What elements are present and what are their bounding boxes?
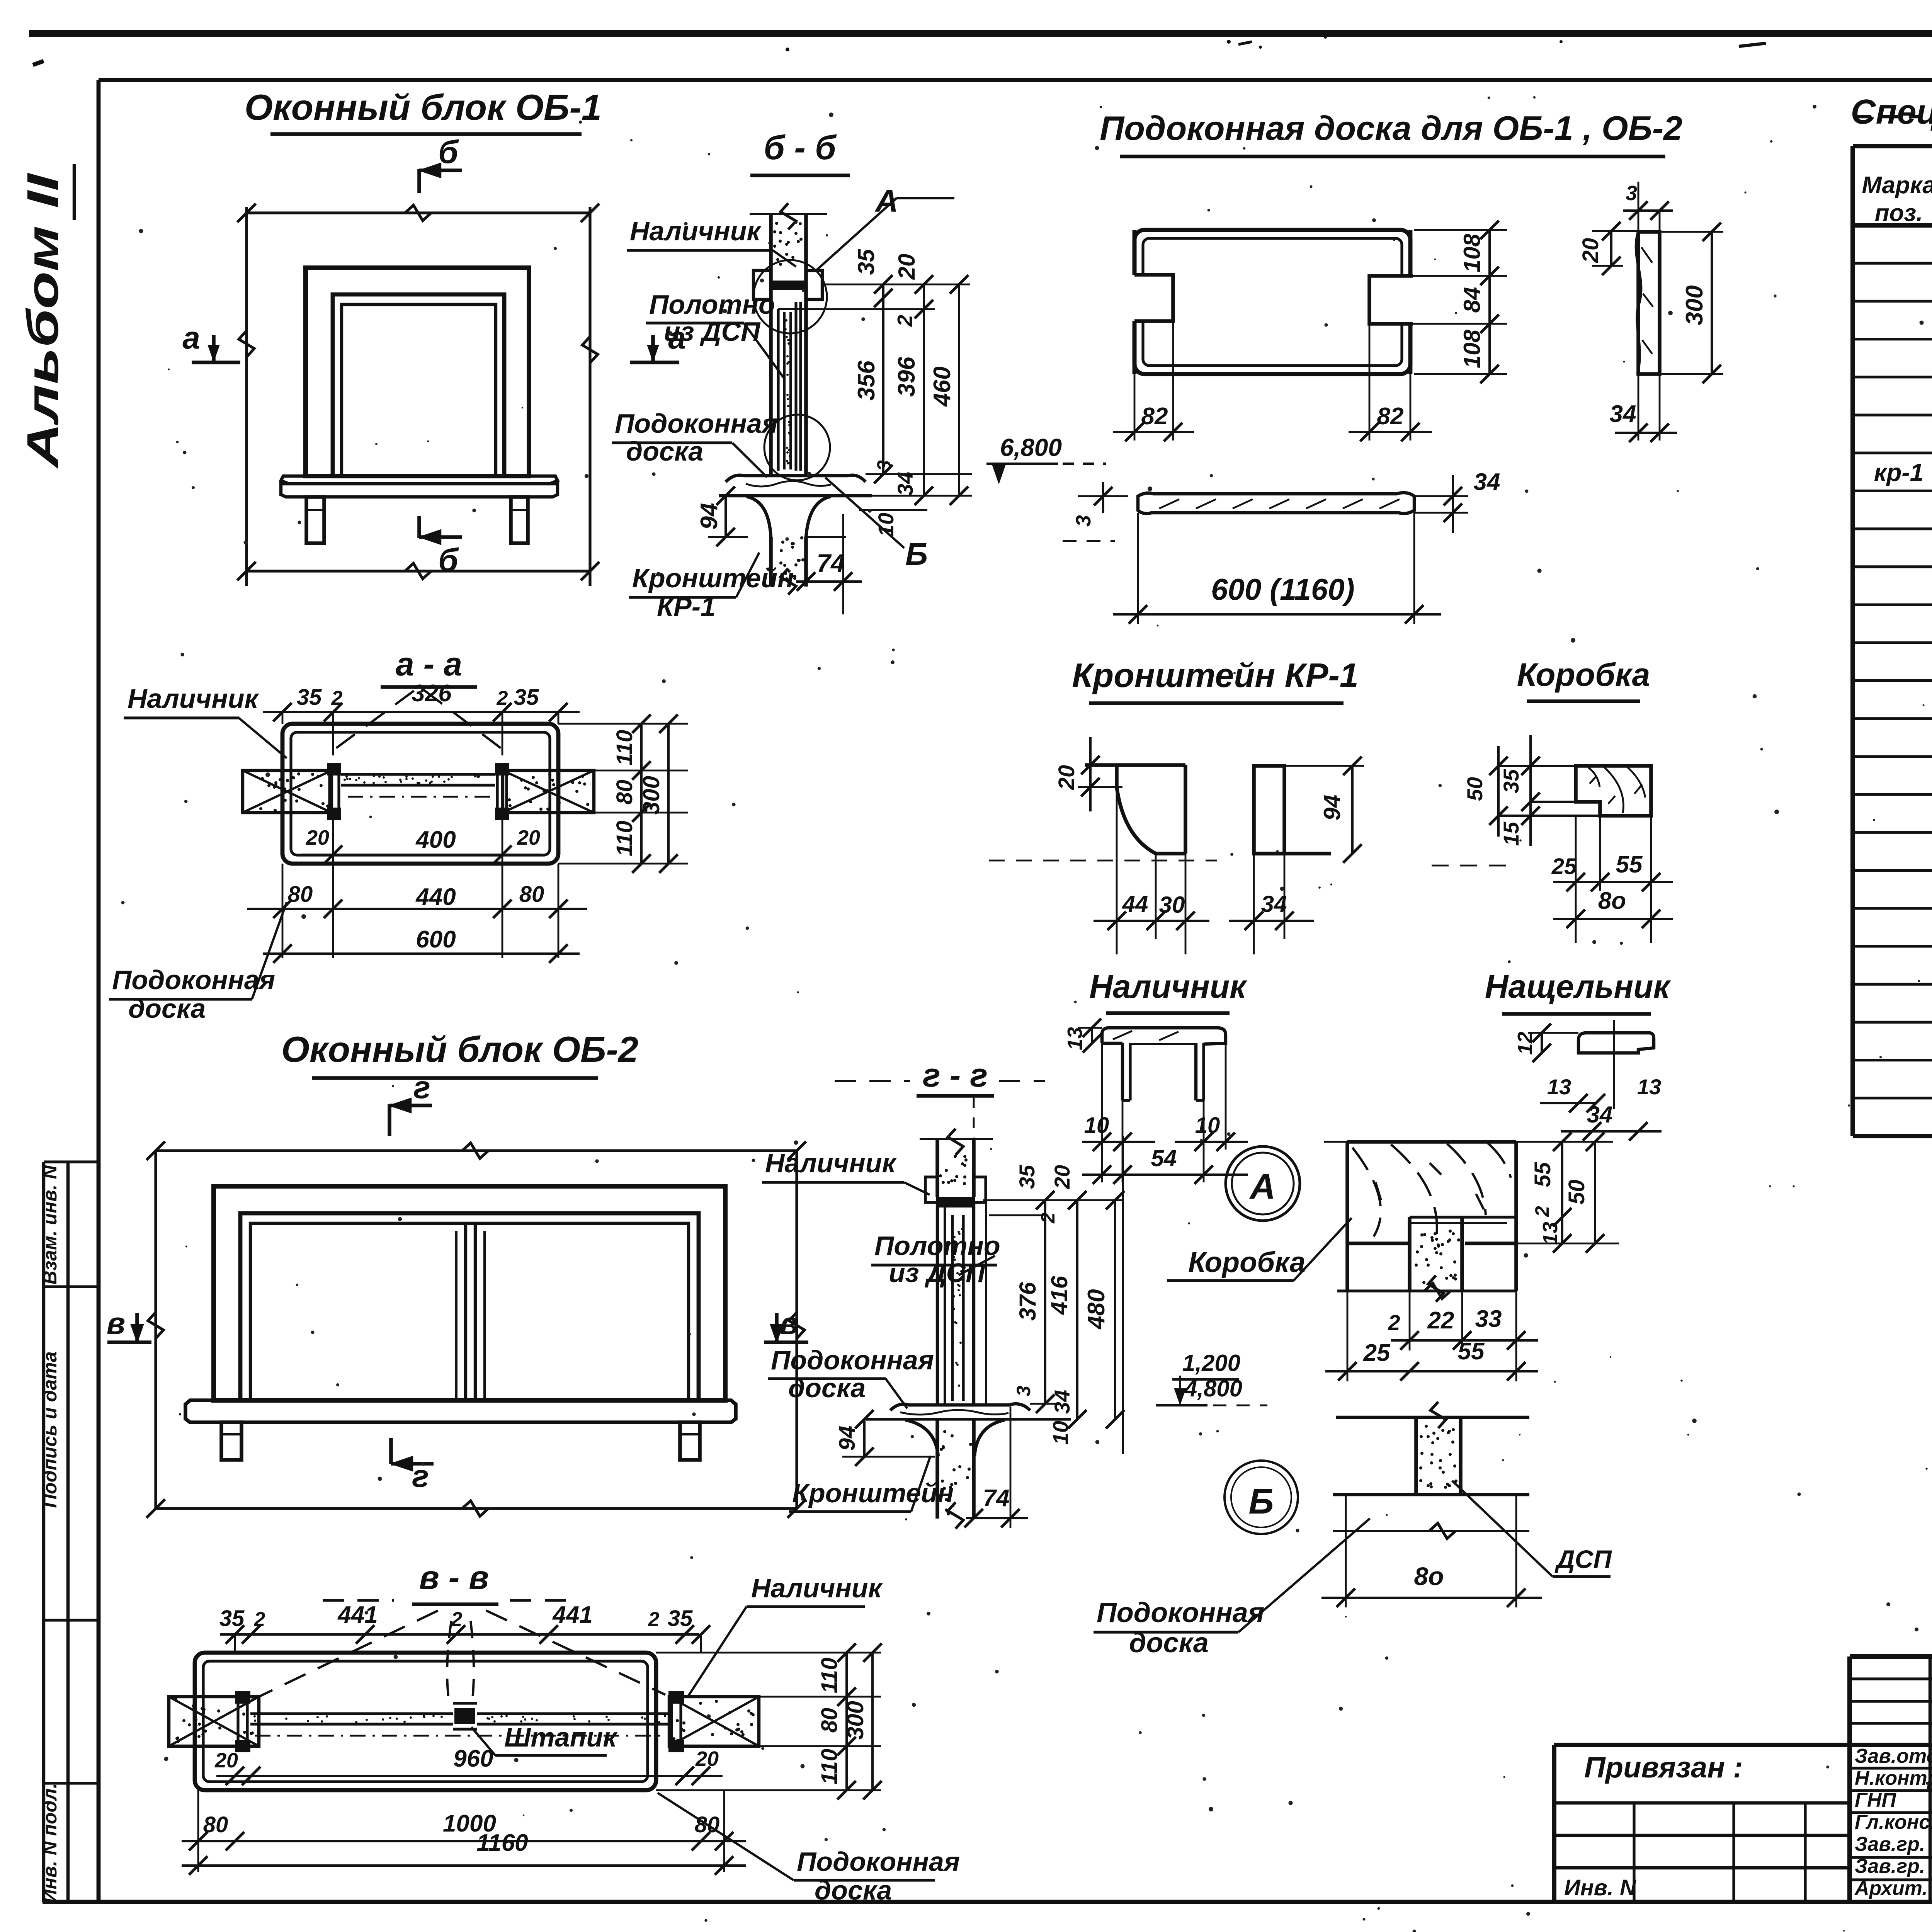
svg-text:108: 108 bbox=[1459, 233, 1485, 272]
svg-text:Зав.отд: Зав.отд bbox=[1855, 1745, 1932, 1767]
svg-text:74: 74 bbox=[983, 1485, 1010, 1512]
svg-text:20: 20 bbox=[214, 1749, 238, 1772]
svg-text:15: 15 bbox=[1499, 821, 1523, 846]
svg-text:55: 55 bbox=[1458, 1338, 1485, 1365]
svg-text:Подоконная: Подоконная bbox=[615, 408, 778, 439]
svg-text:416: 416 bbox=[1046, 1276, 1072, 1315]
svg-text:20: 20 bbox=[306, 826, 329, 849]
svg-text:55: 55 bbox=[1530, 1162, 1555, 1187]
svg-text:Привязан :: Привязан : bbox=[1584, 1751, 1743, 1784]
svg-text:Кронштейн: Кронштейн bbox=[632, 563, 794, 593]
svg-text:из ДСП: из ДСП bbox=[664, 316, 761, 347]
svg-text:Инв. N подл.: Инв. N подл. bbox=[39, 1783, 61, 1903]
svg-text:2: 2 bbox=[893, 315, 917, 327]
svg-text:кр-1: кр-1 bbox=[1874, 458, 1923, 486]
svg-text:2: 2 bbox=[1037, 1213, 1059, 1224]
svg-text:Взам. инв. N: Взам. инв. N bbox=[39, 1165, 61, 1285]
svg-text:34: 34 bbox=[1050, 1390, 1074, 1414]
svg-text:А: А bbox=[874, 184, 898, 219]
svg-text:440: 440 bbox=[415, 884, 456, 910]
svg-text:2: 2 bbox=[648, 1608, 660, 1631]
svg-text:35: 35 bbox=[1015, 1165, 1039, 1189]
svg-text:600: 600 bbox=[416, 926, 456, 953]
svg-text:20: 20 bbox=[517, 826, 540, 849]
svg-text:Альбом II: Альбом II bbox=[18, 173, 68, 469]
svg-text:22: 22 bbox=[1427, 1307, 1454, 1334]
svg-text:960: 960 bbox=[453, 1745, 493, 1772]
svg-text:25: 25 bbox=[1363, 1340, 1391, 1366]
svg-text:13: 13 bbox=[1539, 1222, 1562, 1245]
svg-text:441: 441 bbox=[552, 1602, 592, 1628]
svg-text:54: 54 bbox=[1151, 1145, 1177, 1171]
svg-text:1160: 1160 bbox=[476, 1830, 528, 1856]
svg-text:2: 2 bbox=[1531, 1206, 1553, 1217]
svg-text:110: 110 bbox=[817, 1658, 842, 1693]
svg-text:35: 35 bbox=[297, 685, 322, 710]
svg-text:35: 35 bbox=[853, 248, 879, 275]
svg-text:94: 94 bbox=[835, 1426, 860, 1451]
svg-text:2: 2 bbox=[497, 687, 508, 709]
svg-text:55: 55 bbox=[1616, 851, 1643, 878]
svg-text:20: 20 bbox=[894, 254, 920, 280]
svg-text:33: 33 bbox=[1475, 1306, 1502, 1332]
svg-text:Кронштейн: Кронштейн bbox=[792, 1478, 954, 1508]
svg-text:20: 20 bbox=[1578, 238, 1603, 264]
svg-text:300: 300 bbox=[1681, 285, 1708, 325]
svg-text:в - в: в - в bbox=[419, 1559, 489, 1596]
svg-text:г: г bbox=[412, 1459, 429, 1494]
svg-text:Спецификация материалов к лист: Спецификация материалов к листу АР-20 bbox=[1851, 93, 1932, 131]
svg-text:35: 35 bbox=[514, 685, 539, 710]
svg-text:35: 35 bbox=[668, 1606, 693, 1631]
svg-text:30: 30 bbox=[1159, 892, 1185, 918]
svg-text:Подпись и дата: Подпись и дата bbox=[39, 1351, 61, 1508]
svg-text:460: 460 bbox=[929, 366, 956, 407]
svg-text:110: 110 bbox=[817, 1749, 842, 1784]
svg-text:8о: 8о bbox=[1414, 1562, 1444, 1590]
svg-text:3: 3 bbox=[1072, 515, 1095, 527]
svg-text:Кронштейн КР-1: Кронштейн КР-1 bbox=[1072, 656, 1358, 694]
svg-text:ДСП: ДСП bbox=[1554, 1545, 1612, 1573]
svg-text:Оконный блок ОБ-2: Оконный блок ОБ-2 bbox=[281, 1029, 638, 1070]
svg-text:400: 400 bbox=[415, 827, 456, 853]
svg-text:50: 50 bbox=[1463, 777, 1487, 801]
svg-text:Нащельник: Нащельник bbox=[1485, 968, 1671, 1005]
svg-text:ГНП: ГНП bbox=[1855, 1789, 1896, 1811]
svg-text:Полотно: Полотно bbox=[874, 1231, 1000, 1261]
svg-text:300: 300 bbox=[638, 776, 664, 815]
svg-text:Наличник: Наличник bbox=[751, 1573, 883, 1603]
svg-text:2: 2 bbox=[1388, 1310, 1400, 1335]
svg-text:4,800: 4,800 bbox=[1184, 1376, 1242, 1401]
svg-text:34: 34 bbox=[893, 472, 917, 496]
svg-text:Марка: Марка bbox=[1862, 172, 1932, 199]
svg-text:34: 34 bbox=[1610, 401, 1636, 427]
svg-text:г - г: г - г bbox=[923, 1057, 988, 1094]
svg-text:600 (1160): 600 (1160) bbox=[1211, 572, 1355, 606]
svg-text:50: 50 bbox=[1564, 1180, 1589, 1205]
svg-text:Архит.: Архит. bbox=[1854, 1877, 1928, 1900]
svg-text:84: 84 bbox=[1459, 287, 1485, 313]
svg-text:13: 13 bbox=[1547, 1075, 1571, 1099]
svg-text:441: 441 bbox=[337, 1602, 378, 1628]
svg-text:396: 396 bbox=[893, 357, 920, 397]
svg-text:Коробка: Коробка bbox=[1188, 1246, 1306, 1278]
svg-text:из ДСП: из ДСП bbox=[889, 1258, 986, 1288]
svg-text:Оконный блок ОБ-1: Оконный блок ОБ-1 bbox=[245, 87, 602, 128]
svg-text:80: 80 bbox=[817, 1708, 842, 1733]
svg-text:Б: Б bbox=[905, 537, 928, 572]
svg-text:12: 12 bbox=[1514, 1032, 1537, 1055]
svg-text:Наличник: Наличник bbox=[630, 216, 762, 246]
svg-text:Зав.гр.: Зав.гр. bbox=[1855, 1855, 1925, 1878]
svg-text:44: 44 bbox=[1122, 891, 1148, 917]
svg-text:поз.: поз. bbox=[1875, 200, 1923, 226]
svg-text:13: 13 bbox=[1637, 1075, 1661, 1099]
svg-text:110: 110 bbox=[612, 730, 637, 765]
svg-text:3: 3 bbox=[1626, 182, 1637, 205]
svg-text:82: 82 bbox=[1377, 403, 1404, 430]
svg-text:10: 10 bbox=[1195, 1113, 1220, 1138]
svg-text:А: А bbox=[1249, 1167, 1276, 1206]
svg-text:б: б bbox=[438, 542, 459, 578]
svg-text:Зав.гр.: Зав.гр. bbox=[1855, 1833, 1925, 1855]
svg-text:74: 74 bbox=[816, 549, 845, 577]
svg-text:б - б: б - б bbox=[764, 128, 837, 167]
svg-text:Коробка: Коробка bbox=[1517, 656, 1650, 693]
svg-text:108: 108 bbox=[1459, 329, 1485, 368]
svg-text:34: 34 bbox=[1261, 891, 1287, 917]
svg-text:Подоконная доска для ОБ-1 ,: Подоконная доска для ОБ-1 , ОБ-2 bbox=[1100, 109, 1682, 147]
svg-text:3: 3 bbox=[1013, 1386, 1034, 1396]
svg-text:Наличник: Наличник bbox=[1089, 968, 1247, 1005]
svg-text:80: 80 bbox=[519, 882, 544, 907]
svg-text:82: 82 bbox=[1141, 403, 1168, 430]
svg-text:а - а: а - а bbox=[396, 646, 462, 683]
svg-text:20: 20 bbox=[695, 1747, 719, 1770]
svg-text:34: 34 bbox=[1474, 469, 1500, 495]
svg-text:1,200: 1,200 bbox=[1182, 1350, 1240, 1376]
svg-text:Подоконная: Подоконная bbox=[1097, 1597, 1264, 1628]
svg-text:2: 2 bbox=[451, 1608, 463, 1631]
svg-text:Полотно: Полотно bbox=[649, 289, 775, 320]
svg-text:б: б bbox=[438, 134, 459, 170]
svg-text:80: 80 bbox=[288, 882, 313, 907]
svg-text:в: в bbox=[780, 1306, 798, 1340]
svg-text:10: 10 bbox=[1084, 1113, 1109, 1138]
svg-text:94: 94 bbox=[696, 503, 723, 530]
svg-text:110: 110 bbox=[612, 821, 637, 856]
svg-text:3: 3 bbox=[873, 460, 895, 471]
svg-text:Подоконная: Подоконная bbox=[771, 1345, 934, 1375]
svg-text:Инв. N: Инв. N bbox=[1564, 1875, 1636, 1900]
svg-text:6,800: 6,800 bbox=[1000, 434, 1062, 461]
svg-text:80: 80 bbox=[612, 780, 637, 805]
svg-text:доска: доска bbox=[626, 436, 703, 466]
svg-text:Гл.конс.: Гл.конс. bbox=[1855, 1811, 1932, 1833]
svg-text:94: 94 bbox=[1319, 795, 1345, 821]
svg-text:Наличник: Наличник bbox=[128, 684, 259, 714]
svg-text:Наличник: Наличник bbox=[765, 1148, 897, 1178]
svg-text:Подоконная: Подоконная bbox=[797, 1847, 960, 1877]
svg-text:376: 376 bbox=[1015, 1282, 1041, 1321]
svg-text:480: 480 bbox=[1083, 1289, 1110, 1330]
svg-text:300: 300 bbox=[842, 1701, 868, 1740]
svg-text:Штапик: Штапик bbox=[504, 1722, 618, 1752]
svg-text:20: 20 bbox=[1050, 1165, 1074, 1189]
svg-text:Н.контр: Н.контр bbox=[1855, 1767, 1932, 1789]
svg-text:8о: 8о bbox=[1598, 888, 1626, 914]
svg-text:35: 35 bbox=[1499, 769, 1523, 793]
svg-text:25: 25 bbox=[1551, 854, 1577, 879]
svg-text:Б: Б bbox=[1248, 1482, 1274, 1521]
svg-text:20: 20 bbox=[1054, 765, 1079, 791]
svg-text:в: в bbox=[107, 1306, 125, 1340]
svg-text:356: 356 bbox=[853, 361, 880, 401]
svg-text:10: 10 bbox=[874, 513, 898, 537]
svg-text:10: 10 bbox=[1048, 1421, 1073, 1445]
svg-text:Подоконная: Подоконная bbox=[112, 965, 275, 995]
svg-text:a: a bbox=[182, 320, 200, 355]
svg-text:13: 13 bbox=[1063, 1027, 1087, 1050]
svg-text:г: г bbox=[413, 1070, 430, 1105]
svg-text:326: 326 bbox=[412, 680, 452, 707]
